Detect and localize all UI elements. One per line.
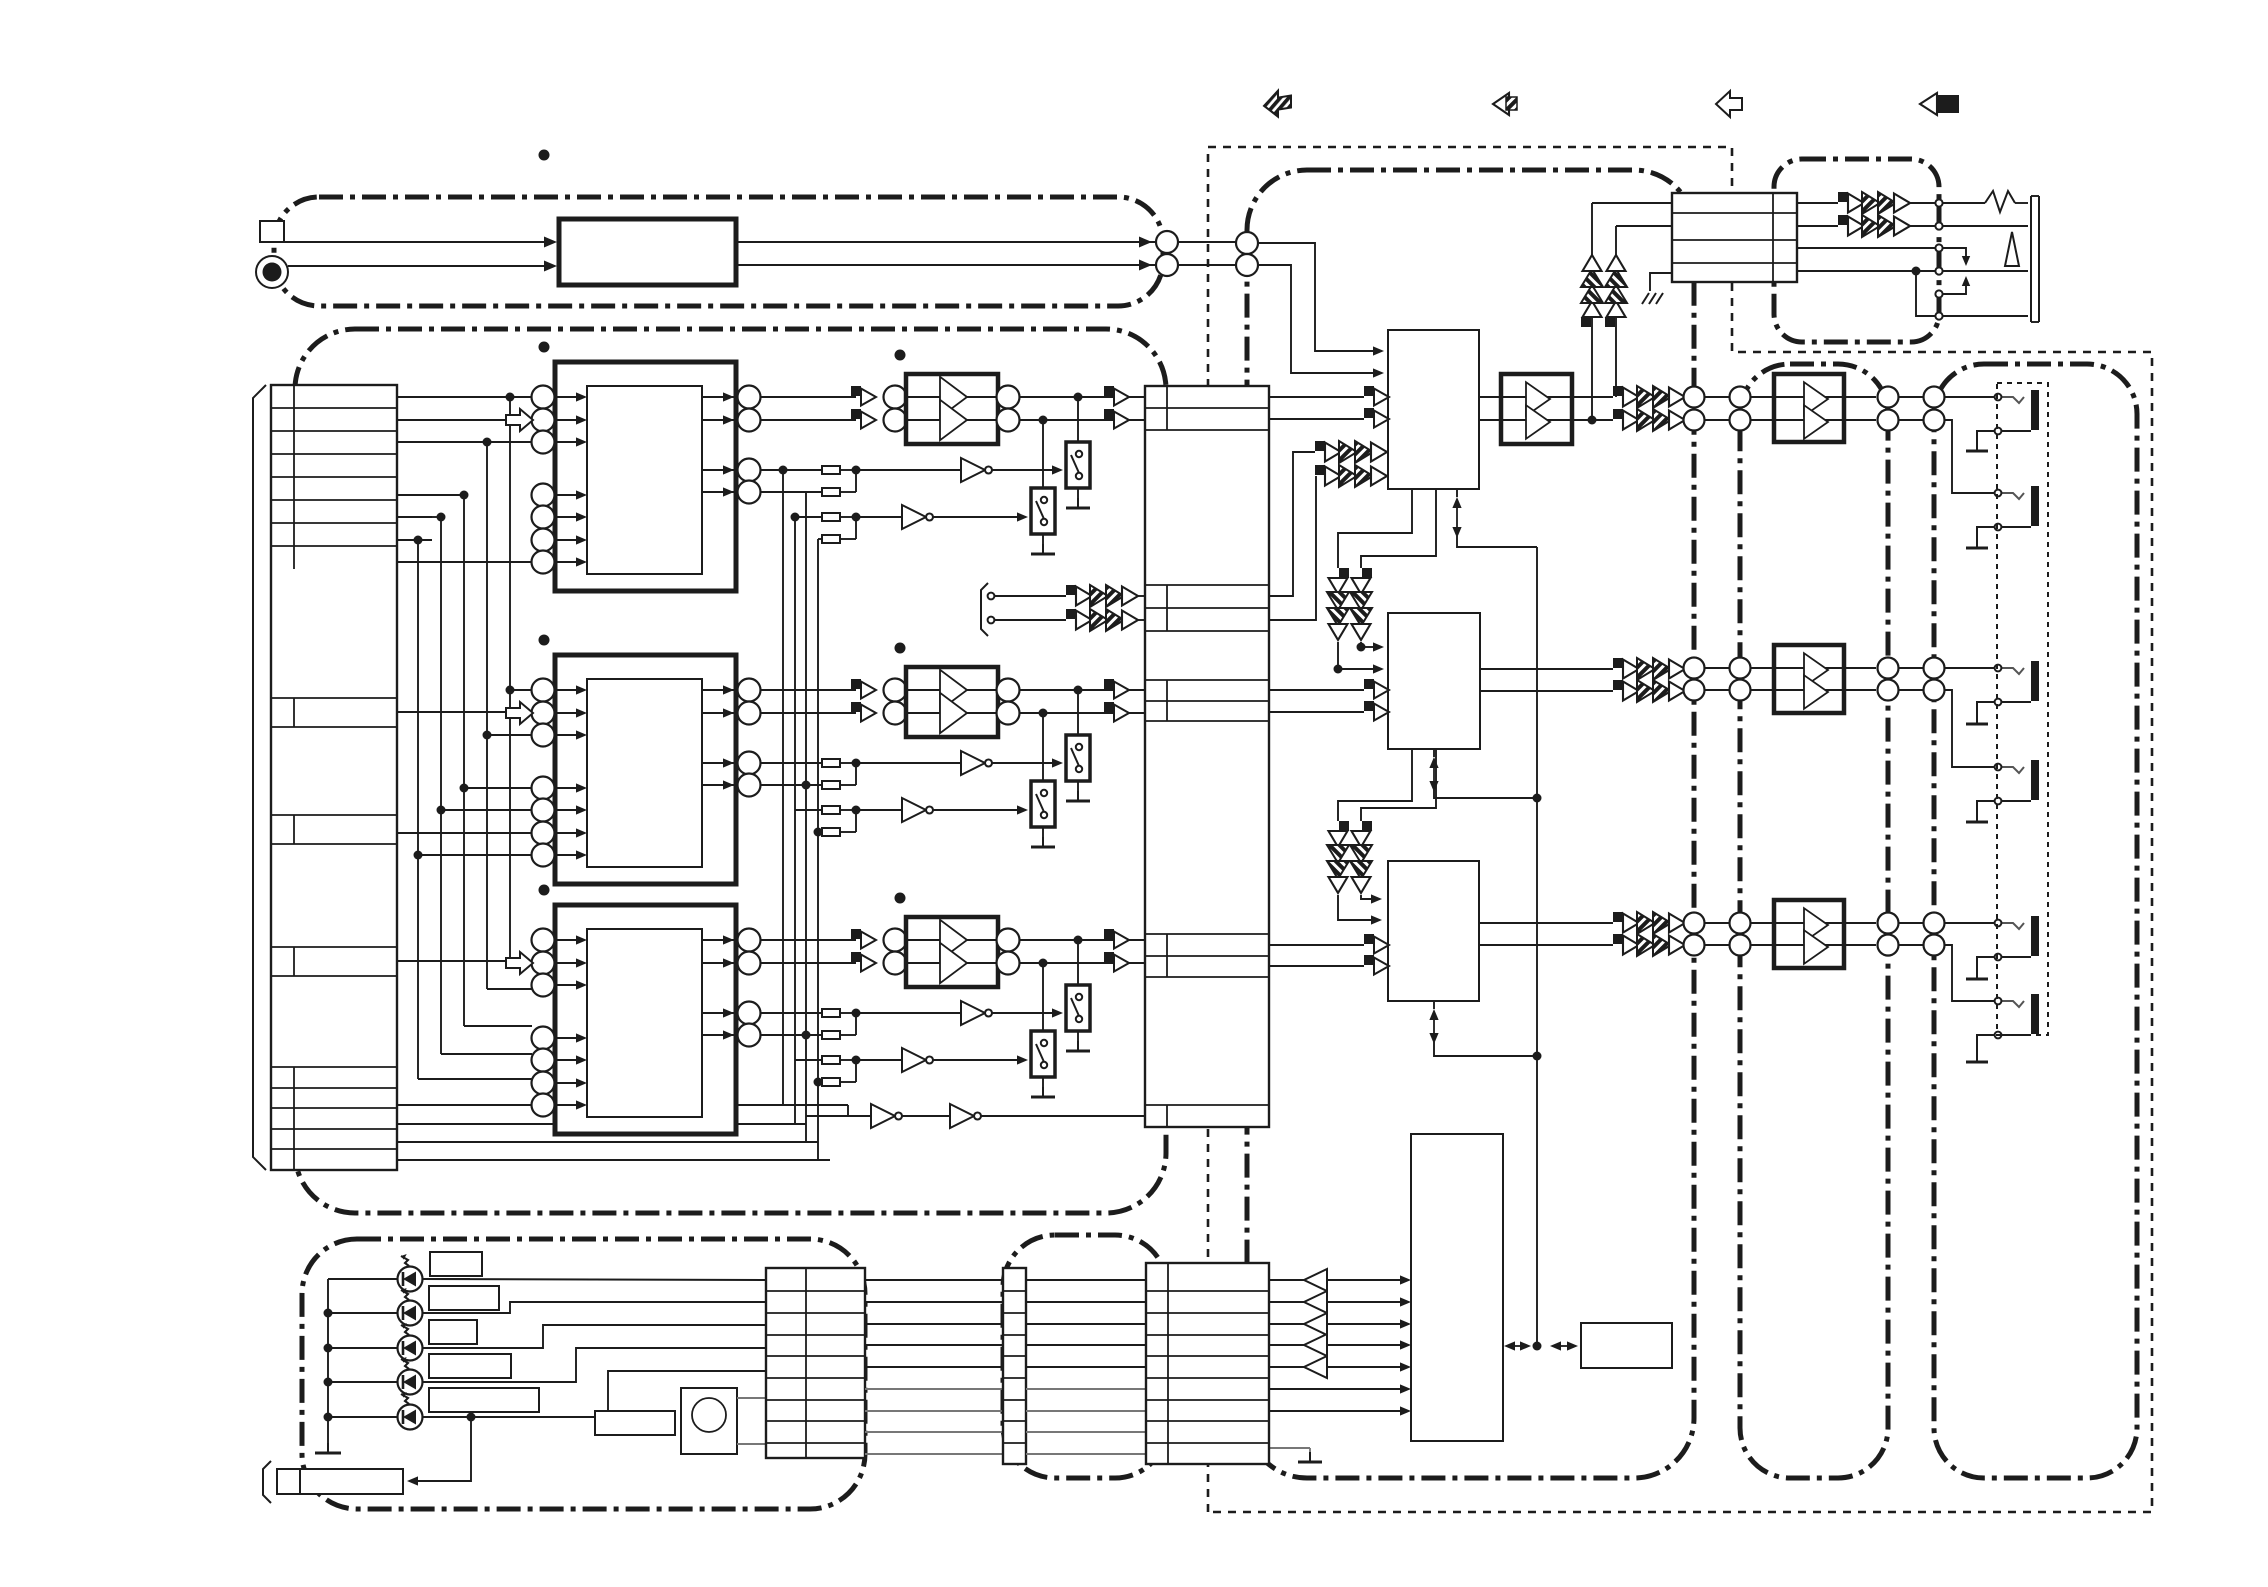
input circles: [532, 386, 555, 409]
wires to op-amp: [760, 689, 856, 691]
wire: tuner out upper: [736, 241, 1156, 243]
volume pot long box: [263, 1461, 271, 1503]
phone jack upper: [2002, 397, 2025, 403]
mute switch A: [1077, 940, 1079, 985]
wires: connector band4 to DSP3: [1269, 944, 1364, 946]
wires to main connector: [1026, 1279, 1146, 1281]
wires: transformer to speaker terminals: [1797, 202, 1838, 204]
wires to jacks: [1944, 667, 1995, 669]
DSP2 to DSP3 serial link with isolators: [1338, 749, 1412, 821]
LED indicator: [328, 1381, 397, 1383]
wires to op-amp: [760, 396, 856, 398]
mute switch A: [1077, 690, 1079, 735]
key board connector single: [1003, 1268, 1026, 1464]
phone jack upper: [2002, 923, 2025, 929]
DAC/volume IC channel: [555, 655, 736, 884]
wire: tuner out lower: [736, 264, 1156, 266]
DSP1 block: [1388, 330, 1479, 489]
input circles: [532, 679, 555, 702]
speaker bar: [2030, 196, 2032, 322]
LED indicator: [328, 1416, 397, 1418]
block arrow input: [506, 952, 533, 974]
headphone driver: [1774, 645, 1844, 713]
mute switch A: [1077, 397, 1079, 442]
label box: [429, 1286, 499, 1310]
ground slashes: [1642, 293, 1663, 304]
wires op-amp to connector: [1019, 689, 1145, 691]
display board connector: [766, 1268, 865, 1458]
marker dots: [539, 885, 550, 896]
LED indicator: [328, 1312, 397, 1314]
dash-dot board outline: jack board: [1934, 364, 2137, 1478]
icon: hatched left arrow: [1264, 89, 1291, 119]
dash-dot board outline: central main board: [1247, 170, 1694, 1478]
MCU block: [1411, 1134, 1503, 1441]
DSP3 block: [1388, 861, 1479, 1001]
opto isolators into DSP1: [1315, 441, 1387, 463]
speaker wiring: [1942, 202, 1985, 204]
wires: bottom control lines: [397, 1104, 848, 1106]
vertical optos on transformer lines: [1581, 255, 1603, 327]
wires op-amp to connector: [1019, 939, 1145, 941]
dash-dot board outline: top-right power board: [1774, 159, 1939, 342]
inverter chain to connector: [806, 1115, 871, 1117]
bottom main connector: [1146, 1263, 1269, 1464]
mute switch B: [1042, 420, 1044, 488]
headphone driver: [1774, 374, 1844, 442]
wires: connector band2 up to DSP1 optos: [1269, 452, 1315, 596]
dash-dot board outline: top-left input board: [274, 197, 1163, 306]
opto pair ch2: [1613, 658, 1685, 680]
filter resistors: [822, 466, 840, 474]
inverter 2: [856, 516, 902, 518]
MCU plain inputs: [1269, 1388, 1400, 1390]
icon: open triangle with hatched box: [1493, 93, 1509, 115]
power transformer connector: [1672, 193, 1797, 282]
wire bus: verticals from top rows down to channels: [509, 397, 511, 964]
resistor junctions: [840, 469, 856, 471]
wires: staircase from top band into DSP1: [1258, 243, 1374, 351]
board connector circles: [1684, 913, 1705, 934]
wires display connector to key connector: [865, 1279, 1003, 1281]
DSP2 block: [1388, 613, 1480, 749]
marker dot above tuner: [539, 150, 550, 161]
DSP3 outputs: [1479, 922, 1613, 924]
EEPROM link: [1559, 1345, 1569, 1347]
label box: [429, 1320, 477, 1344]
dash-dot board outline: main left board: [295, 329, 1166, 1213]
DSP1 to DSP2 serial link with isolators: [1338, 489, 1412, 568]
DSP2 outputs: [1480, 668, 1613, 670]
resistor junctions: [840, 1012, 856, 1014]
op-amp block: [906, 374, 998, 444]
input circles: [532, 929, 555, 952]
LED indicator: [328, 1278, 397, 1280]
block arrow input: [506, 702, 533, 724]
op-amp block: [906, 917, 998, 987]
icon: open left block arrow: [1716, 91, 1742, 117]
inverter 2: [856, 809, 902, 811]
aux input bracket: [981, 583, 988, 636]
LED wires to connector: [423, 1279, 766, 1280]
cable bracket left: [253, 385, 266, 1170]
phone jack lower: [2002, 767, 2025, 773]
op-amp block: [906, 667, 998, 737]
connector circles: board edge top band: [1156, 231, 1178, 253]
output circles: [702, 689, 738, 691]
wires: connector band1 to DSP1: [1269, 396, 1364, 398]
node: antenna square input: [260, 221, 284, 242]
MCU input triangles: [1304, 1269, 1327, 1291]
control bus vertical: [1456, 489, 1458, 497]
phone jack lower: [2002, 493, 2025, 499]
opto pair after driver ch1: [1613, 386, 1685, 408]
speaker terminal circles: [1935, 199, 1942, 206]
output circles: [702, 939, 738, 941]
DSP1 outputs: [1479, 396, 1501, 398]
wires op-amp to connector: [1019, 396, 1145, 398]
headphone driver: [1774, 900, 1844, 968]
inverter 1: [856, 762, 961, 764]
left connector block: [271, 385, 397, 1170]
dash-dot board outline: bottom-middle key board: [1003, 1235, 1167, 1478]
wire: square input to tuner box: [284, 241, 546, 243]
phone jack upper: [2002, 668, 2025, 674]
wires to jacks: [1944, 922, 1995, 924]
filter resistors: [822, 759, 840, 767]
small box: [595, 1411, 675, 1435]
opto isolator pair mid: [1066, 585, 1138, 607]
MCU to bus link: [1513, 1345, 1522, 1347]
marker dots: [539, 635, 550, 646]
DAC/volume IC channel: [555, 362, 736, 591]
mute switch B: [1042, 713, 1044, 781]
board connector circles: [1684, 387, 1705, 408]
icon: open triangle with black box: [1920, 93, 1937, 115]
DAC/volume IC channel: [555, 905, 736, 1134]
LED bus vertical: [327, 1279, 329, 1437]
rotary encoder: [681, 1388, 737, 1454]
wire bus: mute/control verticals: [782, 470, 784, 1105]
inverter 1: [856, 1012, 961, 1014]
wires to jacks: [1944, 396, 1995, 398]
wires to op-amp: [760, 939, 856, 941]
inverter 1: [856, 469, 961, 471]
label box: [429, 1354, 511, 1378]
phone jack lower: [2002, 1001, 2025, 1007]
jack board dotted outline: [1997, 383, 2048, 1035]
line driver mid ch1: [1501, 374, 1572, 444]
opto pair ch3: [1613, 912, 1685, 934]
block arrow input: [506, 409, 533, 431]
wires: transformer left: [1592, 202, 1672, 204]
EEPROM block: [1581, 1323, 1672, 1368]
node: phono round input: [256, 256, 288, 288]
wires: connector to channel inputs: [397, 396, 532, 398]
junction dots on bus verticals: [779, 466, 788, 475]
output circles: [702, 396, 738, 398]
LED indicator: [328, 1347, 397, 1349]
dotted board outline right: [1208, 147, 2152, 1512]
label box: [429, 1388, 539, 1412]
tuner block: [559, 219, 736, 285]
dash-dot board outline: amp board: [1740, 364, 1888, 1478]
ground stub: [1269, 1447, 1310, 1449]
board connector circles: [1684, 658, 1705, 679]
inverter 2: [856, 1059, 902, 1061]
marker dots: [539, 342, 550, 353]
mute switch B: [1042, 963, 1044, 1031]
wire: round input to tuner box: [288, 265, 546, 267]
resistor junctions: [840, 762, 856, 764]
central board-edge connector: [1145, 386, 1269, 1127]
dash-dot board outline: bottom-left display board: [302, 1239, 865, 1509]
transformer verticals: [1591, 203, 1593, 420]
label box: [430, 1252, 482, 1276]
wires: connector band3 to DSP2: [1269, 689, 1364, 691]
filter resistors: [822, 1009, 840, 1017]
